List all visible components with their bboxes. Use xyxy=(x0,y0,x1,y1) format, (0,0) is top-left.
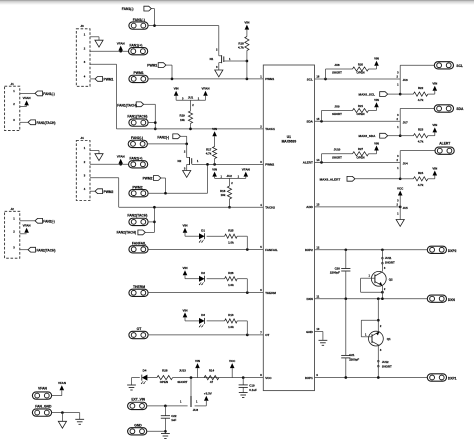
svg-text:VIN: VIN xyxy=(374,98,379,102)
svg-text:FAN1(TACH): FAN1(TACH) xyxy=(127,114,147,118)
svg-text:JU11: JU11 xyxy=(385,256,392,260)
svg-text:VIN: VIN xyxy=(182,224,187,228)
svg-text:JU5: JU5 xyxy=(403,206,409,210)
svg-text:4.7k: 4.7k xyxy=(238,46,244,50)
svg-text:14: 14 xyxy=(316,158,319,162)
svg-text:R23: R23 xyxy=(418,128,424,132)
svg-text:N2: N2 xyxy=(177,159,181,163)
svg-text:D2: D2 xyxy=(201,271,205,275)
svg-text:VIN: VIN xyxy=(195,359,200,363)
svg-text:R24: R24 xyxy=(418,171,424,175)
svg-text:JU4: JU4 xyxy=(403,162,409,166)
svg-text:VFAN: VFAN xyxy=(117,155,125,159)
svg-text:OPEN: OPEN xyxy=(357,71,365,75)
svg-text:THERM: THERM xyxy=(133,285,145,289)
svg-text:16: 16 xyxy=(316,75,319,79)
svg-text:VIN: VIN xyxy=(212,127,217,131)
svg-text:10: 10 xyxy=(316,327,319,331)
svg-text:1uF: 1uF xyxy=(171,418,176,422)
svg-text:FAN1(TACH): FAN1(TACH) xyxy=(37,121,56,125)
svg-text:Q2: Q2 xyxy=(389,277,393,281)
svg-text:R21: R21 xyxy=(358,104,364,108)
svg-text:VIN: VIN xyxy=(182,266,187,270)
svg-text:SDA: SDA xyxy=(456,107,464,111)
svg-text:PWM2: PWM2 xyxy=(265,163,274,167)
svg-text:PWM1: PWM1 xyxy=(134,71,144,75)
svg-text:FAN2(-): FAN2(-) xyxy=(131,136,143,140)
svg-text:10k: 10k xyxy=(221,193,226,197)
svg-text:J2: J2 xyxy=(11,207,15,211)
svg-text:4.7k: 4.7k xyxy=(418,183,424,187)
svg-text:SHORT: SHORT xyxy=(177,380,187,384)
svg-text:N1: N1 xyxy=(210,57,214,61)
svg-text:R22: R22 xyxy=(418,86,424,90)
svg-text:VFAN: VFAN xyxy=(58,381,66,385)
svg-text:TACH2: TACH2 xyxy=(265,206,275,210)
svg-text:15: 15 xyxy=(316,117,319,121)
svg-text:VIN: VIN xyxy=(374,57,379,61)
svg-text:JU12: JU12 xyxy=(382,360,389,364)
svg-text:ALERT: ALERT xyxy=(303,161,313,165)
svg-text:JU8: JU8 xyxy=(334,63,340,67)
svg-text:0.1uF: 0.1uF xyxy=(249,388,257,392)
svg-text:R16: R16 xyxy=(220,189,226,193)
svg-text:FANFAIL: FANFAIL xyxy=(265,248,278,252)
svg-text:GND: GND xyxy=(134,423,142,427)
svg-text:R18: R18 xyxy=(238,41,244,45)
svg-text:JU9: JU9 xyxy=(334,104,340,108)
svg-text:JU13: JU13 xyxy=(179,369,186,373)
svg-text:FAN1(+): FAN1(+) xyxy=(129,43,142,47)
svg-text:4.7k: 4.7k xyxy=(418,140,424,144)
svg-text:VIN: VIN xyxy=(174,87,179,91)
svg-text:FAN2(-): FAN2(-) xyxy=(157,136,169,140)
svg-text:R19: R19 xyxy=(179,114,185,118)
svg-text:MAX6_ALERT: MAX6_ALERT xyxy=(320,177,341,181)
svg-text:FAN1(-): FAN1(-) xyxy=(43,92,54,96)
svg-text:C21: C21 xyxy=(349,353,355,357)
svg-text:OPEN: OPEN xyxy=(357,155,365,159)
svg-text:11: 11 xyxy=(316,294,319,298)
svg-text:DXP1: DXP1 xyxy=(448,377,457,381)
svg-text:ADD: ADD xyxy=(306,205,313,209)
svg-text:FAN1(-): FAN1(-) xyxy=(122,7,134,11)
svg-text:J4: J4 xyxy=(80,136,84,140)
svg-text:PWM2: PWM2 xyxy=(132,185,142,189)
svg-text:R17: R17 xyxy=(206,147,212,151)
svg-text:13: 13 xyxy=(316,203,319,207)
svg-text:OT: OT xyxy=(265,333,269,337)
svg-text:OPEN: OPEN xyxy=(357,112,365,116)
svg-text:D4: D4 xyxy=(143,369,147,373)
svg-text:Q1: Q1 xyxy=(387,337,391,341)
svg-text:1.0k: 1.0k xyxy=(228,325,234,329)
svg-text:DXP1: DXP1 xyxy=(305,376,313,380)
svg-text:JU3: JU3 xyxy=(193,408,199,412)
svg-text:VIN: VIN xyxy=(432,82,437,86)
svg-text:+3.3V: +3.3V xyxy=(204,392,212,396)
svg-text:TACH1: TACH1 xyxy=(265,127,275,131)
svg-text:R13: R13 xyxy=(228,313,234,317)
svg-text:SHORT: SHORT xyxy=(332,155,342,159)
svg-text:JU2: JU2 xyxy=(227,174,233,178)
svg-text:VFAN: VFAN xyxy=(117,41,125,45)
svg-text:DXP2: DXP2 xyxy=(448,249,457,253)
svg-text:JU7: JU7 xyxy=(403,121,409,125)
svg-text:C20: C20 xyxy=(335,266,341,270)
svg-text:VFAN: VFAN xyxy=(23,224,31,228)
svg-text:PWM2: PWM2 xyxy=(143,177,153,181)
svg-text:VCC: VCC xyxy=(397,186,404,190)
svg-text:R26: R26 xyxy=(228,271,234,275)
svg-text:VFAN: VFAN xyxy=(201,87,209,91)
svg-text:FAN2(TACH): FAN2(TACH) xyxy=(127,214,147,218)
svg-text:C19: C19 xyxy=(249,384,255,388)
svg-text:47: 47 xyxy=(210,380,214,384)
svg-text:R28: R28 xyxy=(162,369,168,373)
svg-text:EXT_VIN: EXT_VIN xyxy=(131,398,145,402)
svg-text:VIN: VIN xyxy=(432,123,437,127)
svg-text:VCC: VCC xyxy=(229,359,236,363)
svg-text:J3: J3 xyxy=(80,24,84,28)
svg-text:DXN: DXN xyxy=(448,298,456,302)
svg-text:MAX6_SDA: MAX6_SDA xyxy=(359,134,377,138)
svg-text:PWM1: PWM1 xyxy=(104,78,114,82)
svg-text:VIN: VIN xyxy=(244,21,249,25)
svg-text:U1: U1 xyxy=(287,135,291,139)
svg-text:PWM2: PWM2 xyxy=(104,190,114,194)
svg-text:FANFAIL: FANFAIL xyxy=(132,241,146,245)
svg-text:1.0k: 1.0k xyxy=(228,241,234,245)
svg-text:10k: 10k xyxy=(180,118,185,122)
svg-text:DXN: DXN xyxy=(306,297,312,301)
svg-text:VFAN: VFAN xyxy=(23,96,31,100)
svg-text:12: 12 xyxy=(316,245,319,249)
svg-text:PWM1: PWM1 xyxy=(147,64,157,68)
svg-text:1.0k: 1.0k xyxy=(228,283,234,287)
svg-text:VIN: VIN xyxy=(432,166,437,170)
svg-text:FAN_GND: FAN_GND xyxy=(35,405,52,409)
svg-text:JU6: JU6 xyxy=(403,78,409,82)
svg-text:4.7k: 4.7k xyxy=(418,98,424,102)
svg-text:FAN1(-): FAN1(-) xyxy=(133,18,145,22)
svg-text:VIN: VIN xyxy=(182,308,187,312)
svg-text:OPEN: OPEN xyxy=(160,380,168,384)
svg-text:JU1: JU1 xyxy=(188,96,194,100)
svg-text:SHORT: SHORT xyxy=(385,261,395,265)
svg-text:MAX6639: MAX6639 xyxy=(282,140,297,144)
svg-text:FAN1(TACH): FAN1(TACH) xyxy=(117,104,137,108)
svg-text:4.7k: 4.7k xyxy=(206,152,212,156)
svg-text:J1: J1 xyxy=(11,82,15,86)
svg-text:ALERT: ALERT xyxy=(439,141,450,145)
svg-text:2200pF: 2200pF xyxy=(330,271,340,275)
svg-text:VIN: VIN xyxy=(212,168,217,172)
svg-text:VIN: VIN xyxy=(374,141,379,145)
svg-text:R14: R14 xyxy=(209,369,215,373)
svg-text:SCL: SCL xyxy=(456,64,463,68)
svg-text:C22: C22 xyxy=(171,414,177,418)
svg-text:FAN2(TACH): FAN2(TACH) xyxy=(37,248,56,252)
svg-text:JU10: JU10 xyxy=(334,148,341,152)
svg-text:FAN2(-): FAN2(-) xyxy=(43,219,54,223)
svg-text:MAX6_SCL: MAX6_SCL xyxy=(359,93,376,97)
svg-text:VFAN: VFAN xyxy=(242,168,250,172)
svg-text:THERM: THERM xyxy=(265,291,276,295)
svg-text:DXP2: DXP2 xyxy=(305,248,313,252)
svg-text:SDA: SDA xyxy=(306,120,313,124)
svg-text:VFAN: VFAN xyxy=(38,386,48,390)
svg-text:PWM1: PWM1 xyxy=(265,77,274,81)
svg-text:D1: D1 xyxy=(201,228,205,232)
svg-text:SCL: SCL xyxy=(307,77,313,81)
svg-text:FAN2(+): FAN2(+) xyxy=(129,156,142,160)
svg-text:R27: R27 xyxy=(358,147,364,151)
svg-text:SHORT: SHORT xyxy=(332,112,342,116)
svg-text:VCC: VCC xyxy=(265,376,272,380)
svg-text:FAN2(TACH): FAN2(TACH) xyxy=(117,231,137,235)
svg-text:SHORT: SHORT xyxy=(382,365,392,369)
svg-text:R25: R25 xyxy=(228,228,234,232)
svg-text:SHORT: SHORT xyxy=(332,71,342,75)
svg-text:2200pF: 2200pF xyxy=(349,358,359,362)
svg-text:GND: GND xyxy=(306,330,314,334)
svg-text:R20: R20 xyxy=(358,62,364,66)
svg-text:D3: D3 xyxy=(201,313,205,317)
